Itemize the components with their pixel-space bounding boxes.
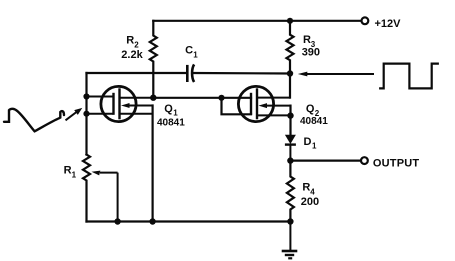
svg-text:Q: Q <box>306 103 315 115</box>
node R1 wiper / ground rail <box>114 218 120 224</box>
label D1 <box>304 136 318 151</box>
ground <box>282 222 298 259</box>
svg-text:R: R <box>126 34 134 46</box>
potentiometer R1 <box>83 155 90 222</box>
node output junction <box>287 157 293 163</box>
transistor Q1 <box>87 86 154 121</box>
transistor Q2 <box>238 86 290 121</box>
node Q1 source / ground rail <box>149 218 155 224</box>
node Q1 gate upper <box>83 93 89 99</box>
label 200 <box>301 196 319 208</box>
wire bottom ground rail <box>87 220 291 222</box>
wire Q1 gate node: left vertical from top corner down to bottom rail <box>85 73 87 155</box>
capacitor C1 <box>187 64 194 82</box>
svg-text:200: 200 <box>301 196 319 208</box>
node B (R3 / C1 / Q2 drain) <box>287 70 293 76</box>
node R4 / ground rail <box>287 218 293 224</box>
wire Q2 drain up to node B <box>289 74 291 98</box>
label Q2 <box>306 103 320 118</box>
node top rail / R3 junction <box>287 18 293 24</box>
label R1 <box>64 165 77 180</box>
resistor R2 <box>150 21 157 98</box>
label R2 <box>126 34 139 49</box>
label R4 <box>302 182 315 197</box>
diode D1 <box>285 135 296 161</box>
resistor R3 <box>287 21 294 74</box>
label C1 <box>185 45 198 60</box>
label 2.2k <box>121 49 143 61</box>
svg-text:R: R <box>303 34 311 46</box>
label +12V <box>375 18 402 30</box>
square wave symbol <box>380 64 438 89</box>
svg-text:Q: Q <box>164 103 173 115</box>
label 40841 (Q1) <box>157 118 185 129</box>
input waveform symbol <box>4 109 64 131</box>
wire Q2 gate loop <box>222 98 252 115</box>
annotation arrow into node B <box>298 72 374 77</box>
node Q2 gate <box>218 95 224 101</box>
+12V terminal <box>362 17 369 24</box>
svg-text:390: 390 <box>302 47 320 59</box>
node Q1 drain <box>150 95 156 101</box>
svg-text:OUTPUT: OUTPUT <box>373 157 419 169</box>
resistor R4 <box>287 161 294 222</box>
wire Q1 drain to Q2 gate <box>153 97 251 99</box>
label OUTPUT <box>373 157 419 169</box>
svg-text:1: 1 <box>312 142 317 151</box>
label 40841 (Q2) <box>300 116 328 127</box>
svg-text:1: 1 <box>72 170 77 179</box>
wire top +12V rail <box>153 20 361 22</box>
svg-text:2.2k: 2.2k <box>121 49 143 61</box>
wire C1 to node B <box>194 72 291 75</box>
label R3 <box>303 34 316 49</box>
svg-text:1: 1 <box>173 109 178 118</box>
svg-text:+12V: +12V <box>375 18 402 30</box>
svg-text:C: C <box>185 45 193 57</box>
svg-text:D: D <box>304 136 312 148</box>
svg-text:R: R <box>302 182 310 194</box>
svg-text:1: 1 <box>193 50 198 59</box>
node Q1 gate lower <box>83 111 89 117</box>
wire Q1 source/substrate to ground rail <box>152 106 154 222</box>
R1 wiper arm <box>92 171 118 222</box>
label 390 <box>302 47 320 59</box>
svg-text:40841: 40841 <box>300 116 328 127</box>
wire output <box>290 160 360 162</box>
input annotation arrow <box>66 108 83 120</box>
wire gate-to-C1 horizontal <box>87 72 187 74</box>
wire Q2 source/substrate bracket down to D1 <box>289 106 291 135</box>
svg-text:R: R <box>64 165 72 177</box>
svg-text:40841: 40841 <box>157 118 185 129</box>
node Q2 source <box>287 112 293 118</box>
label Q1 <box>164 103 178 118</box>
OUTPUT terminal <box>361 157 368 164</box>
